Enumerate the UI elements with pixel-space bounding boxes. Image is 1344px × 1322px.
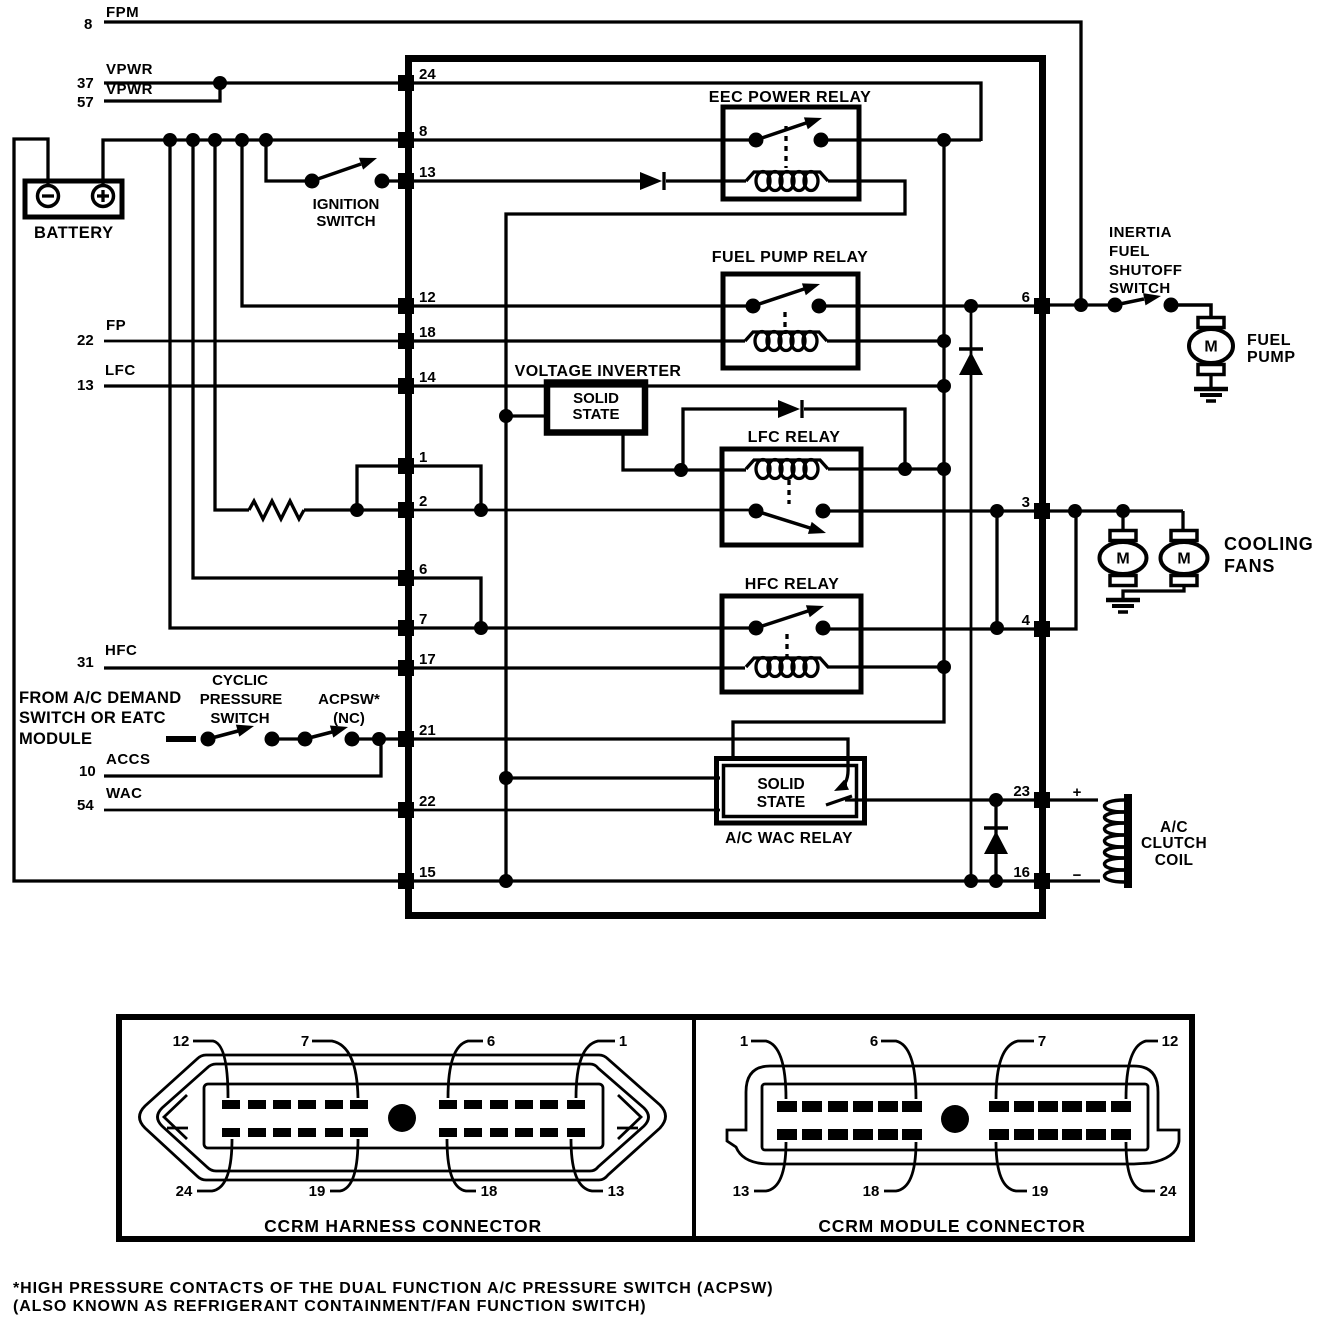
svg-text:13: 13 — [419, 164, 436, 181]
svg-text:SWITCH: SWITCH — [1109, 280, 1171, 297]
wire pin 16 to clutch coil — [1050, 879, 1100, 882]
junction pin1/pin2 tap — [350, 503, 364, 517]
svg-text:6: 6 — [870, 1033, 878, 1050]
svg-text:7: 7 — [1038, 1033, 1046, 1050]
svg-text:EEC POWER RELAY: EEC POWER RELAY — [709, 89, 872, 106]
wire VPWR-57 — [104, 83, 220, 101]
pin 15 (left) — [398, 864, 436, 889]
resistor R1 — [249, 501, 304, 519]
harness leader 7 — [301, 1033, 358, 1098]
svg-text:M: M — [1116, 551, 1129, 568]
svg-text:24: 24 — [1160, 1183, 1177, 1200]
svg-text:COIL: COIL — [1155, 852, 1194, 869]
svg-text:SWITCH: SWITCH — [316, 213, 375, 230]
module leader 18 — [863, 1142, 916, 1200]
harness leader 1 — [576, 1033, 627, 1098]
junction pin3 internal — [990, 504, 1004, 518]
harness leader 24 — [176, 1139, 232, 1200]
junction EEC out — [937, 133, 951, 147]
pin 6 (left) — [398, 561, 427, 586]
label - polarity — [1073, 867, 1082, 884]
wire fan2 drop — [1181, 511, 1184, 532]
svg-text:6: 6 — [1022, 289, 1030, 306]
wire pin 22 to WAC — [412, 809, 720, 812]
wire WAC out (pin 23) — [845, 798, 1034, 801]
svg-text:15: 15 — [419, 864, 436, 881]
node VPWR (EEC pin 57) — [77, 81, 153, 111]
junction fan1 tap — [1116, 504, 1130, 518]
junction pin 14 — [937, 379, 951, 393]
svg-text:HFC: HFC — [105, 642, 137, 659]
svg-text:12: 12 — [173, 1033, 190, 1050]
module leader 6 — [870, 1033, 916, 1099]
wire pin 21 to WAC control — [412, 739, 848, 766]
wire FPM — [104, 22, 1081, 303]
pin 12 (left) — [398, 289, 436, 314]
wire inverter to WAC — [506, 776, 720, 779]
svg-text:7: 7 — [301, 1033, 309, 1050]
inertia fuel shutoff switch S4 — [1108, 224, 1183, 313]
svg-text:13: 13 — [733, 1183, 750, 1200]
ignition switch S1 — [305, 158, 405, 230]
junction bus D — [235, 133, 249, 147]
pin 6 (right) — [1022, 289, 1050, 314]
wire battery positive bus — [103, 140, 404, 186]
node VPWR (EEC pin 37) — [77, 61, 153, 92]
module leader 13 — [733, 1142, 786, 1200]
svg-text:16: 16 — [1013, 864, 1030, 881]
wire EEC switch out — [821, 138, 981, 141]
junction inverter input — [499, 409, 513, 423]
pin 7 (left) — [398, 611, 427, 636]
svg-text:BATTERY: BATTERY — [34, 224, 114, 242]
svg-text:ACPSW*: ACPSW* — [318, 691, 380, 708]
svg-text:MODULE: MODULE — [19, 730, 92, 748]
pin 3 (right) — [1022, 494, 1050, 519]
svg-text:13: 13 — [77, 377, 94, 394]
label COOLING FANS — [1224, 534, 1314, 576]
wire fan commons — [1123, 585, 1184, 598]
wire WAC to pin 22 — [104, 809, 404, 812]
diode D3 — [959, 349, 983, 375]
junction VPWR — [213, 76, 227, 90]
wire S4 to fuel pump — [1170, 305, 1211, 319]
svg-text:17: 17 — [419, 651, 436, 668]
diode D1 — [640, 172, 664, 190]
junction pin4 internal — [990, 621, 1004, 635]
junction pin3/pin4 tie — [1068, 504, 1082, 518]
relay K3 LFC RELAY — [722, 429, 861, 545]
svg-text:INERTIA: INERTIA — [1109, 224, 1172, 241]
module center hole — [941, 1105, 969, 1133]
pin 1 (left) — [398, 449, 427, 474]
svg-text:SWITCH: SWITCH — [210, 710, 269, 727]
svg-text:3: 3 — [1022, 494, 1030, 511]
svg-text:8: 8 — [84, 16, 92, 33]
harness leader 6 — [448, 1033, 495, 1098]
junction FPM drop — [1074, 298, 1088, 312]
svg-text:VPWR: VPWR — [106, 81, 153, 98]
svg-text:PRESSURE: PRESSURE — [200, 691, 283, 708]
svg-text:37: 37 — [77, 75, 94, 92]
svg-text:4: 4 — [1022, 612, 1031, 629]
harness center hole — [388, 1104, 416, 1132]
harness pin field — [204, 1084, 603, 1148]
svg-text:18: 18 — [481, 1183, 498, 1200]
svg-text:1: 1 — [740, 1033, 748, 1050]
junction pin6 internal — [474, 621, 488, 635]
node LFC (EEC pin 13) — [77, 362, 136, 394]
svg-text:19: 19 — [309, 1183, 326, 1200]
svg-text:CYCLIC: CYCLIC — [212, 672, 268, 689]
svg-text:COOLING: COOLING — [1224, 534, 1314, 554]
svg-text:(NC): (NC) — [333, 710, 365, 727]
svg-text:−: − — [1073, 867, 1082, 884]
junction inverter to WAC — [499, 771, 513, 785]
pin 18 (left) — [398, 324, 436, 349]
pin 2 (left) — [398, 493, 427, 518]
harness leader 19 — [309, 1139, 358, 1200]
module leader 7 — [996, 1033, 1046, 1099]
ACPSW switch S3 — [298, 726, 360, 747]
svg-text:FANS: FANS — [1224, 556, 1275, 576]
wire pin 4 out — [1050, 511, 1076, 629]
wire demand feed stub — [166, 736, 196, 742]
junction pin1 internal — [474, 503, 488, 517]
wire ACCS — [104, 739, 381, 776]
node FP (EEC pin 22) — [77, 317, 126, 349]
svg-text:FP: FP — [106, 317, 126, 334]
svg-text:14: 14 — [419, 369, 436, 386]
wire WAC diode branch — [994, 800, 997, 881]
wire pin 8 to EEC relay — [412, 138, 756, 141]
wire inverter output — [623, 434, 681, 470]
svg-text:SOLID: SOLID — [757, 776, 804, 793]
wire inverter input — [506, 414, 545, 417]
pin 22 (left) — [398, 793, 436, 818]
svg-text:M: M — [1204, 339, 1217, 356]
cooling fan motor M3 — [1161, 531, 1208, 586]
label ACPSW* (NC) — [318, 691, 380, 727]
relay K2 FUEL PUMP RELAY — [712, 249, 869, 368]
module leader 1 — [740, 1033, 786, 1099]
wire bus to pin 6 — [193, 140, 404, 578]
harness leader 13 — [571, 1139, 624, 1200]
svg-text:HFC RELAY: HFC RELAY — [745, 576, 840, 593]
svg-text:SOLID: SOLID — [573, 390, 619, 407]
wire FP to pin 18 — [104, 340, 404, 343]
wire pin 14 internal — [412, 384, 944, 387]
cooling fan motor M2 — [1100, 531, 1147, 586]
junction bus E — [259, 133, 273, 147]
junction ground inverter — [499, 874, 513, 888]
label CYCLIC PRESSURE SWITCH — [200, 672, 283, 727]
node HFC (EEC pin 31) — [77, 642, 137, 671]
wire K2 switch out (pin 6) — [819, 304, 1034, 307]
svg-text:FUEL: FUEL — [1109, 243, 1150, 260]
svg-text:PUMP: PUMP — [1247, 349, 1296, 366]
svg-text:FPM: FPM — [106, 4, 139, 21]
svg-text:13: 13 — [608, 1183, 625, 1200]
junction K3 coil collector — [937, 462, 951, 476]
CCRM module box U1 — [409, 59, 1043, 916]
wire battery negative to ground bus — [14, 139, 404, 881]
pin 24 (left) — [398, 66, 436, 91]
svg-text:A/C: A/C — [1160, 819, 1188, 836]
module leader 12 — [1126, 1033, 1178, 1099]
label + polarity — [1073, 784, 1082, 801]
wire pin 24 internal — [412, 83, 981, 141]
node FPM (EEC pin 8) — [84, 4, 139, 33]
harness connector outline — [140, 1055, 666, 1180]
pin 4 (right) — [1022, 612, 1050, 637]
junction K2 coil — [937, 334, 951, 348]
relay K1 EEC POWER RELAY — [709, 89, 872, 199]
svg-text:31: 31 — [77, 654, 94, 671]
wire bus to pin 7 — [170, 140, 404, 628]
ground cooling fans — [1106, 600, 1140, 612]
wire pin 12 to K2 — [412, 304, 753, 307]
voltage inverter U2 — [515, 363, 682, 433]
harness leader 18 — [447, 1139, 497, 1200]
label CCRM MODULE CONNECTOR — [818, 1216, 1085, 1236]
diode D2 — [778, 400, 802, 418]
junction WAC diode bottom — [989, 874, 1003, 888]
svg-text:21: 21 — [419, 722, 436, 739]
cyclic pressure switch S2 — [201, 725, 280, 747]
junction D2 out — [898, 462, 912, 476]
wire pin 6 out — [1050, 303, 1115, 306]
junction ACCS tap — [372, 732, 386, 746]
wire EEC coil to inverter feed — [506, 181, 905, 882]
module pins — [777, 1101, 1131, 1140]
svg-text:6: 6 — [419, 561, 427, 578]
svg-text:22: 22 — [419, 793, 436, 810]
fuel pump motor M1 — [1189, 318, 1296, 375]
svg-text:IGNITION: IGNITION — [313, 196, 380, 213]
wire D2 to collector — [804, 409, 905, 469]
svg-text:FROM A/C DEMAND: FROM A/C DEMAND — [19, 689, 181, 707]
svg-text:18: 18 — [863, 1183, 880, 1200]
ground fuel pump — [1194, 389, 1228, 401]
wire K4 coil out — [827, 665, 944, 668]
svg-text:SHUTOFF: SHUTOFF — [1109, 262, 1182, 279]
wire pin 23 to clutch coil — [1050, 798, 1098, 801]
wire VPWR-37 — [104, 81, 404, 84]
svg-text:CCRM HARNESS CONNECTOR: CCRM HARNESS CONNECTOR — [264, 1216, 542, 1236]
svg-text:10: 10 — [79, 763, 96, 780]
svg-text:12: 12 — [1162, 1033, 1179, 1050]
wire fan1 drop — [1121, 511, 1124, 532]
wire pin 18 to K2 coil — [412, 339, 745, 342]
harness pins — [222, 1100, 585, 1137]
wire pin 6 internal — [412, 578, 481, 628]
svg-text:M: M — [1177, 551, 1190, 568]
svg-text:57: 57 — [77, 94, 94, 111]
wire M1 to ground — [1209, 374, 1212, 388]
junction K4 coil collector — [937, 660, 951, 674]
wire K3 switch out (pin 3) — [823, 509, 1034, 512]
svg-text:22: 22 — [77, 332, 94, 349]
svg-text:(ALSO KNOWN AS REFRIGERANT CON: (ALSO KNOWN AS REFRIGERANT CONTAINMENT/F… — [13, 1298, 647, 1315]
svg-text:FUEL PUMP RELAY: FUEL PUMP RELAY — [712, 249, 869, 266]
svg-text:2: 2 — [419, 493, 427, 510]
svg-text:1: 1 — [619, 1033, 627, 1050]
wire LFC to pin 14 — [104, 384, 404, 387]
wire pin 15 to pin 16 ground line — [412, 879, 1034, 882]
harness leader 12 — [173, 1033, 228, 1098]
wire tap to pin 1 — [357, 466, 404, 510]
pin 8 (left) — [398, 123, 427, 148]
wire pin 13 with diode D1 — [412, 179, 640, 182]
label FROM A/C DEMAND SWITCH OR EATC MODULE — [19, 689, 181, 748]
svg-text:CCRM MODULE CONNECTOR: CCRM MODULE CONNECTOR — [818, 1216, 1085, 1236]
wire HFC to pin 17 — [104, 666, 404, 669]
junction bus B — [186, 133, 200, 147]
wire LFC diode branch — [681, 409, 778, 470]
junction bus C — [208, 133, 222, 147]
node WAC (EEC pin 54) — [77, 785, 143, 814]
svg-text:FUEL: FUEL — [1247, 332, 1291, 349]
module leader 24 — [1126, 1142, 1177, 1200]
junction clamp bottom — [964, 874, 978, 888]
junction bus A — [163, 133, 177, 147]
svg-text:LFC: LFC — [105, 362, 136, 379]
svg-text:WAC: WAC — [106, 785, 143, 802]
module connector outline — [727, 1066, 1179, 1164]
svg-text:LFC RELAY: LFC RELAY — [748, 429, 841, 446]
wire collector net — [733, 140, 944, 759]
pin 21 (left) — [398, 722, 436, 747]
svg-text:19: 19 — [1032, 1183, 1049, 1200]
A/C clutch coil L1 — [1105, 794, 1208, 888]
module leader 19 — [996, 1142, 1048, 1200]
wire pin 1 internal — [412, 466, 481, 510]
footnote — [13, 1280, 774, 1315]
wire inverter out to K3 coil — [681, 468, 746, 471]
module pin field — [762, 1084, 1148, 1150]
wire bus to pin 12 — [242, 140, 404, 306]
svg-text:7: 7 — [419, 611, 427, 628]
pin 23 (right) — [1013, 783, 1050, 808]
junction K2 out / diode — [964, 299, 978, 313]
relay K5 A/C WAC RELAY — [717, 759, 865, 848]
svg-text:SWITCH OR EATC: SWITCH OR EATC — [19, 709, 166, 727]
wire pin6 clamp branch — [970, 306, 973, 881]
wire pin3-pin4 internal link — [995, 511, 998, 628]
svg-text:A/C WAC RELAY: A/C WAC RELAY — [725, 830, 853, 847]
wire pin 17 to K4 coil — [412, 666, 745, 669]
pin 16 (right) — [1013, 864, 1050, 889]
svg-text:ACCS: ACCS — [106, 751, 151, 768]
svg-text:23: 23 — [1013, 783, 1030, 800]
wire bus to resistor — [215, 140, 249, 510]
wire S3 to pin 21 — [352, 737, 404, 740]
svg-text:18: 18 — [419, 324, 436, 341]
node ACCS (EEC pin 10) — [79, 751, 151, 780]
pin 17 (left) — [398, 651, 436, 676]
svg-text:STATE: STATE — [573, 406, 620, 423]
connector frame — [119, 1017, 1192, 1239]
junction WAC diode top — [989, 793, 1003, 807]
svg-text:12: 12 — [419, 289, 436, 306]
wire D1 to EEC coil — [666, 179, 746, 182]
wire pin 7 to K4 — [412, 626, 756, 629]
svg-text:8: 8 — [419, 123, 427, 140]
battery B1 — [25, 181, 122, 242]
svg-text:VPWR: VPWR — [106, 61, 153, 78]
wire pin 3 out — [1050, 509, 1183, 512]
wire S2 to S3 — [272, 737, 305, 740]
svg-text:54: 54 — [77, 797, 94, 814]
label CCRM HARNESS CONNECTOR — [264, 1216, 542, 1236]
wire K2 coil out — [827, 339, 944, 342]
svg-text:CLUTCH: CLUTCH — [1141, 835, 1207, 852]
svg-text:24: 24 — [419, 66, 436, 83]
pin 14 (left) — [398, 369, 436, 394]
svg-text:24: 24 — [176, 1183, 193, 1200]
svg-text:STATE: STATE — [757, 794, 806, 811]
svg-text:VOLTAGE INVERTER: VOLTAGE INVERTER — [515, 363, 682, 380]
WAC control arrow — [834, 766, 849, 791]
svg-text:+: + — [1073, 784, 1082, 801]
svg-text:1: 1 — [419, 449, 427, 466]
wire pin 2 to K3 — [412, 509, 756, 512]
wire K3 coil out — [828, 467, 944, 470]
wire K4 switch out (pin 4) — [823, 627, 1034, 630]
junction inverter output — [674, 463, 688, 477]
diode D4 — [984, 828, 1008, 854]
wire bus to ignition switch — [266, 140, 312, 181]
pin 13 (left) — [398, 164, 436, 189]
svg-text:*HIGH PRESSURE CONTACTS OF THE: *HIGH PRESSURE CONTACTS OF THE DUAL FUNC… — [13, 1280, 774, 1297]
relay K4 HFC RELAY — [722, 576, 861, 692]
wire resistor to pin 2 — [304, 508, 404, 511]
svg-text:6: 6 — [487, 1033, 495, 1050]
